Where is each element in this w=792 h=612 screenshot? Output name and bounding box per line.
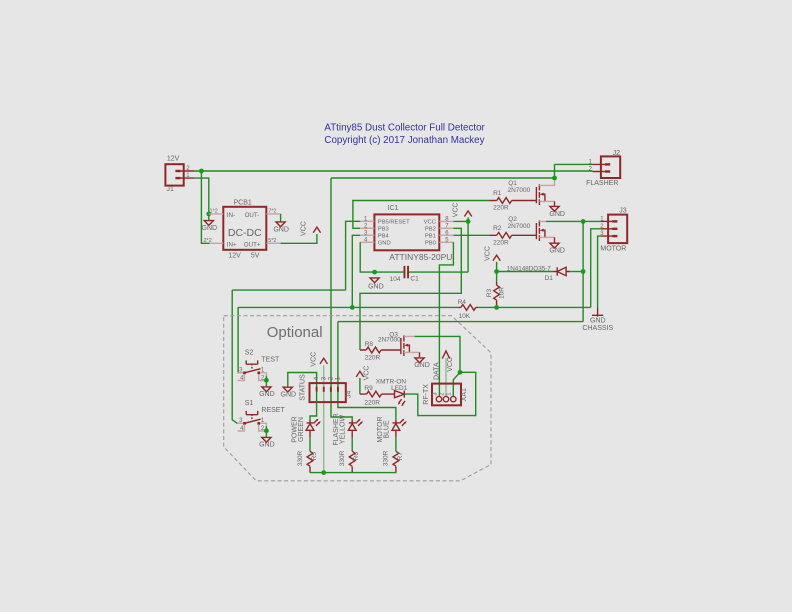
junction dot D1 anode node — [494, 269, 499, 274]
svg-text:TEST: TEST — [261, 357, 280, 364]
ground at S1 — [259, 431, 275, 449]
svg-text:PB0: PB0 — [425, 241, 436, 247]
junction dot PB4 rail — [350, 305, 355, 310]
svg-text:R4: R4 — [458, 299, 467, 306]
transistor Q2 — [508, 216, 547, 241]
wire IC1 pin6 PB1 to R2 — [453, 234, 489, 236]
ground at Q3 source — [411, 352, 430, 369]
svg-text:1: 1 — [447, 392, 453, 396]
svg-text:VCC: VCC — [363, 366, 370, 381]
wire J3 pin2 down to R4 rail — [591, 229, 601, 308]
vcc symbol at PCB1 output — [301, 221, 321, 236]
wire led to resistor R7 — [395, 437, 397, 451]
wire net J2pin1/Q1 drain rail — [331, 177, 555, 179]
wire VCC to D1 node — [496, 262, 498, 282]
svg-text:12V: 12V — [167, 155, 180, 162]
ground at S2 — [259, 380, 275, 398]
diode D1 1N4148 — [507, 266, 571, 282]
svg-text:PB4: PB4 — [378, 234, 390, 240]
svg-text:IC1: IC1 — [388, 205, 399, 212]
transistor Q3 — [378, 331, 411, 356]
wire Q2 drain to J3 pin1 — [546, 220, 601, 222]
svg-text:2N7000: 2N7000 — [508, 223, 531, 230]
svg-text:MOTOR: MOTOR — [600, 245, 626, 252]
svg-text:VCC: VCC — [447, 357, 454, 372]
resistor R2 220R — [489, 225, 536, 246]
resistor R3 10R — [486, 282, 506, 308]
junction dot S2 gnd — [264, 378, 269, 383]
junction dot led rail — [321, 470, 326, 475]
ic IC1 ATTINY85 — [360, 205, 453, 262]
svg-text:VCC: VCC — [311, 352, 318, 367]
led LED1 XMTR-ON — [376, 379, 408, 407]
wire IC1 pin3 PB4 down to rail — [352, 235, 360, 307]
switch S1 RESET — [237, 400, 285, 432]
svg-text:2N7000: 2N7000 — [378, 337, 401, 344]
svg-text:220R: 220R — [493, 240, 509, 247]
wire J3 pin3 down to chassis ground — [598, 236, 601, 309]
wire led to resistor R6 — [351, 437, 353, 451]
svg-text:R8: R8 — [365, 341, 374, 348]
svg-text:GND: GND — [273, 227, 289, 234]
svg-text:5*2: 5*2 — [268, 238, 276, 244]
junction dot IC gnd — [372, 270, 377, 275]
svg-text:PB1: PB1 — [425, 234, 436, 240]
wire 12V down to PCB1 IN+ — [201, 171, 209, 243]
svg-text:GREEN: GREEN — [298, 417, 305, 442]
svg-text:BLUE: BLUE — [384, 420, 391, 439]
svg-text:YELLOW: YELLOW — [340, 415, 347, 445]
wire TEST rail down to S2 — [238, 307, 241, 372]
wire IC1 pin1 RESET down — [346, 221, 361, 290]
wire J2 pin1 down to Q1 drain — [555, 164, 593, 178]
svg-text:RESET: RESET — [261, 407, 285, 414]
transistor Q1 — [508, 180, 547, 205]
svg-text:1N4148DO35-7: 1N4148DO35-7 — [507, 266, 552, 273]
capacitor C1 104 — [390, 266, 419, 283]
wire D1 node to diode — [497, 271, 554, 273]
rf module XA1 — [423, 384, 468, 406]
svg-text:XA1: XA1 — [461, 388, 468, 401]
wire S2 to ground — [264, 376, 266, 381]
svg-text:GND: GND — [281, 392, 297, 399]
chassis ground GND CHASSIS — [582, 308, 613, 332]
wire rail down to J4 pin2 — [331, 178, 352, 419]
switch S2 TEST — [237, 350, 280, 382]
ground at J4 pin4 — [281, 387, 297, 398]
resistor R6 330R — [339, 450, 360, 472]
svg-text:ATtiny85 Dust Collector Full D: ATtiny85 Dust Collector Full Detector — [324, 122, 485, 133]
svg-text:10R: 10R — [499, 287, 506, 299]
svg-text:OUT-: OUT- — [245, 212, 260, 219]
wire gnd rail to C1 — [375, 271, 404, 273]
wire J1 pin1 to PCB1 IN- — [194, 178, 209, 214]
svg-text:PB2: PB2 — [425, 227, 436, 233]
svg-text:PB5/RESET: PB5/RESET — [378, 220, 410, 226]
svg-text:GND: GND — [590, 318, 606, 325]
svg-text:R7: R7 — [397, 452, 404, 461]
svg-text:LED1: LED1 — [391, 385, 408, 392]
junction dot IC pin8 VCC — [466, 219, 471, 224]
junction dot R3 bottom — [494, 305, 499, 310]
svg-text:3: 3 — [432, 392, 438, 396]
led led MOTOR BLUE — [377, 417, 407, 443]
junction dot IN- gnd — [206, 212, 211, 217]
wire PCB1 OUT+ to VCC — [281, 234, 317, 243]
wire IC1 pin2 PB3 to R1 — [353, 201, 490, 229]
svg-text:2: 2 — [439, 392, 445, 396]
svg-text:GND: GND — [549, 247, 565, 254]
vcc symbol above R9 — [356, 366, 370, 381]
svg-text:STATUS: STATUS — [300, 374, 307, 401]
ground at IC1/C1 — [368, 278, 384, 291]
svg-text:GND: GND — [549, 211, 565, 218]
svg-text:R1: R1 — [493, 190, 502, 197]
wire J3 pin1 down to D1 and motor rail — [582, 221, 584, 321]
svg-text:PB3: PB3 — [378, 227, 389, 233]
svg-text:1*2: 1*2 — [210, 208, 218, 214]
led led POWER GREEN — [291, 416, 321, 442]
wire motor rail — [338, 321, 583, 323]
wire diode to J3 pin1 net — [570, 271, 583, 273]
junction dot Q1 drain — [552, 176, 557, 181]
svg-text:GND: GND — [378, 241, 391, 247]
svg-text:S2: S2 — [245, 350, 254, 357]
svg-text:GND: GND — [259, 442, 275, 449]
junction dot D1 cathode — [581, 269, 586, 274]
wire 12V rail J1 pin2 to J2 pin2 — [194, 170, 593, 172]
header J4 STATUS — [300, 374, 353, 402]
svg-text:GND: GND — [259, 391, 275, 398]
wire XA1 node diagonal to pin1 — [453, 372, 460, 396]
ground at PCB1 IN- — [202, 214, 218, 232]
data arrow at XA1 pin2 — [433, 351, 454, 397]
svg-text:CHASSIS: CHASSIS — [582, 325, 613, 332]
connector J3 — [600, 207, 627, 252]
svg-text:VCC: VCC — [301, 221, 308, 236]
svg-text:DATA: DATA — [433, 362, 440, 380]
junction dot XA1 node — [458, 370, 463, 375]
resistor R5 330R — [297, 450, 318, 472]
junction dot J3 pin1 — [581, 219, 586, 224]
svg-text:Copyright (c) 2017 Jonathan Ma: Copyright (c) 2017 Jonathan Mackey — [324, 135, 484, 146]
dc-dc module PCB1 — [204, 200, 281, 260]
wire TEST rail to J3 pin2 with R4 — [238, 306, 591, 308]
wire IC1 pin5 PB0 to XA1 pin3 — [439, 242, 453, 396]
svg-text:PCB1: PCB1 — [234, 200, 252, 207]
svg-text:5V: 5V — [251, 253, 260, 260]
svg-text:330R: 330R — [383, 450, 390, 466]
vcc symbol at J4 pin3 — [311, 352, 328, 367]
wire IC1 pin4 GND down — [360, 242, 374, 272]
wire S1 to ground — [264, 426, 266, 431]
resistor R7 330R — [383, 450, 404, 472]
svg-text:J3: J3 — [619, 207, 627, 214]
svg-text:D1: D1 — [545, 275, 554, 282]
svg-text:330R: 330R — [297, 450, 304, 466]
wire Q3 drain to XA1 node — [411, 335, 415, 337]
svg-text:GND: GND — [368, 283, 384, 290]
ground at Q1 source — [546, 201, 565, 217]
junction dot S1 gnd — [264, 428, 269, 433]
svg-text:R6: R6 — [353, 452, 360, 461]
wire IC1 pin7 PB2 to R8 — [360, 228, 461, 350]
svg-text:GND: GND — [202, 225, 218, 232]
svg-text:VCC: VCC — [452, 202, 459, 217]
wire J4 pin3 VCC shaft to led rail — [323, 365, 325, 472]
svg-text:VCC: VCC — [485, 246, 492, 261]
svg-text:VCC: VCC — [424, 220, 436, 226]
svg-text:12V: 12V — [228, 253, 241, 260]
connector J1 — [165, 155, 194, 193]
svg-text:FLASHER: FLASHER — [586, 180, 618, 187]
resistor R8 220R — [360, 341, 401, 361]
svg-text:C1: C1 — [410, 276, 419, 283]
svg-text:220R: 220R — [493, 205, 509, 212]
svg-text:IN-: IN- — [227, 212, 235, 219]
svg-text:2*2: 2*2 — [204, 238, 212, 244]
wire LED1 to XA1 pin1 node — [404, 372, 475, 415]
junction dot 12V — [199, 169, 204, 174]
svg-text:220R: 220R — [365, 354, 381, 361]
resistor R4 10K — [458, 299, 479, 320]
svg-text:Optional: Optional — [267, 324, 323, 341]
svg-text:Q2: Q2 — [508, 216, 517, 223]
svg-text:RF-TX: RF-TX — [423, 384, 430, 405]
svg-text:R2: R2 — [493, 225, 502, 232]
wire RESET rail to S1 — [232, 290, 345, 423]
wire led vcc rail — [310, 472, 396, 474]
svg-text:ATTINY85-20PU: ATTINY85-20PU — [389, 252, 452, 262]
connector J2 — [586, 150, 620, 187]
wire J4 pin1 to flasher led — [338, 322, 396, 420]
svg-text:2N7000: 2N7000 — [508, 187, 531, 194]
svg-text:J2: J2 — [613, 150, 621, 157]
svg-text:J4: J4 — [346, 391, 353, 399]
wire J4 pin4 to power led — [310, 392, 317, 420]
wire led to resistor R5 — [309, 437, 311, 451]
svg-text:7*2: 7*2 — [268, 208, 276, 214]
ground at PCB1 OUT- — [273, 214, 289, 234]
wire Q1 drain up — [546, 181, 555, 186]
vcc symbol above R3 — [485, 246, 501, 261]
svg-text:R3: R3 — [486, 288, 493, 297]
svg-text:330R: 330R — [339, 450, 346, 466]
svg-text:Q1: Q1 — [508, 180, 517, 187]
resistor R1 220R — [489, 190, 536, 211]
svg-text:104: 104 — [390, 276, 401, 283]
svg-text:OUT+: OUT+ — [244, 242, 261, 249]
svg-text:GND: GND — [414, 362, 430, 369]
svg-text:J1: J1 — [167, 186, 175, 193]
wire J4 pin4 to ground — [288, 373, 317, 391]
svg-text:R5: R5 — [311, 452, 318, 461]
wire VCC to R9 — [359, 378, 361, 394]
svg-text:R9: R9 — [364, 385, 373, 392]
wire C1 to VCC pin8 — [409, 217, 468, 272]
svg-text:S1: S1 — [245, 400, 254, 407]
optional boundary dashed — [224, 316, 491, 481]
led led FLASHER YELLOW — [333, 413, 363, 445]
svg-text:DC-DC: DC-DC — [228, 227, 262, 239]
vcc symbol at IC1 pin8 — [452, 202, 471, 217]
svg-text:220R: 220R — [364, 399, 380, 406]
ground at Q2 source — [546, 237, 565, 254]
resistor R9 220R — [360, 385, 395, 406]
svg-text:10K: 10K — [459, 313, 471, 320]
svg-text:IN+: IN+ — [227, 242, 237, 249]
